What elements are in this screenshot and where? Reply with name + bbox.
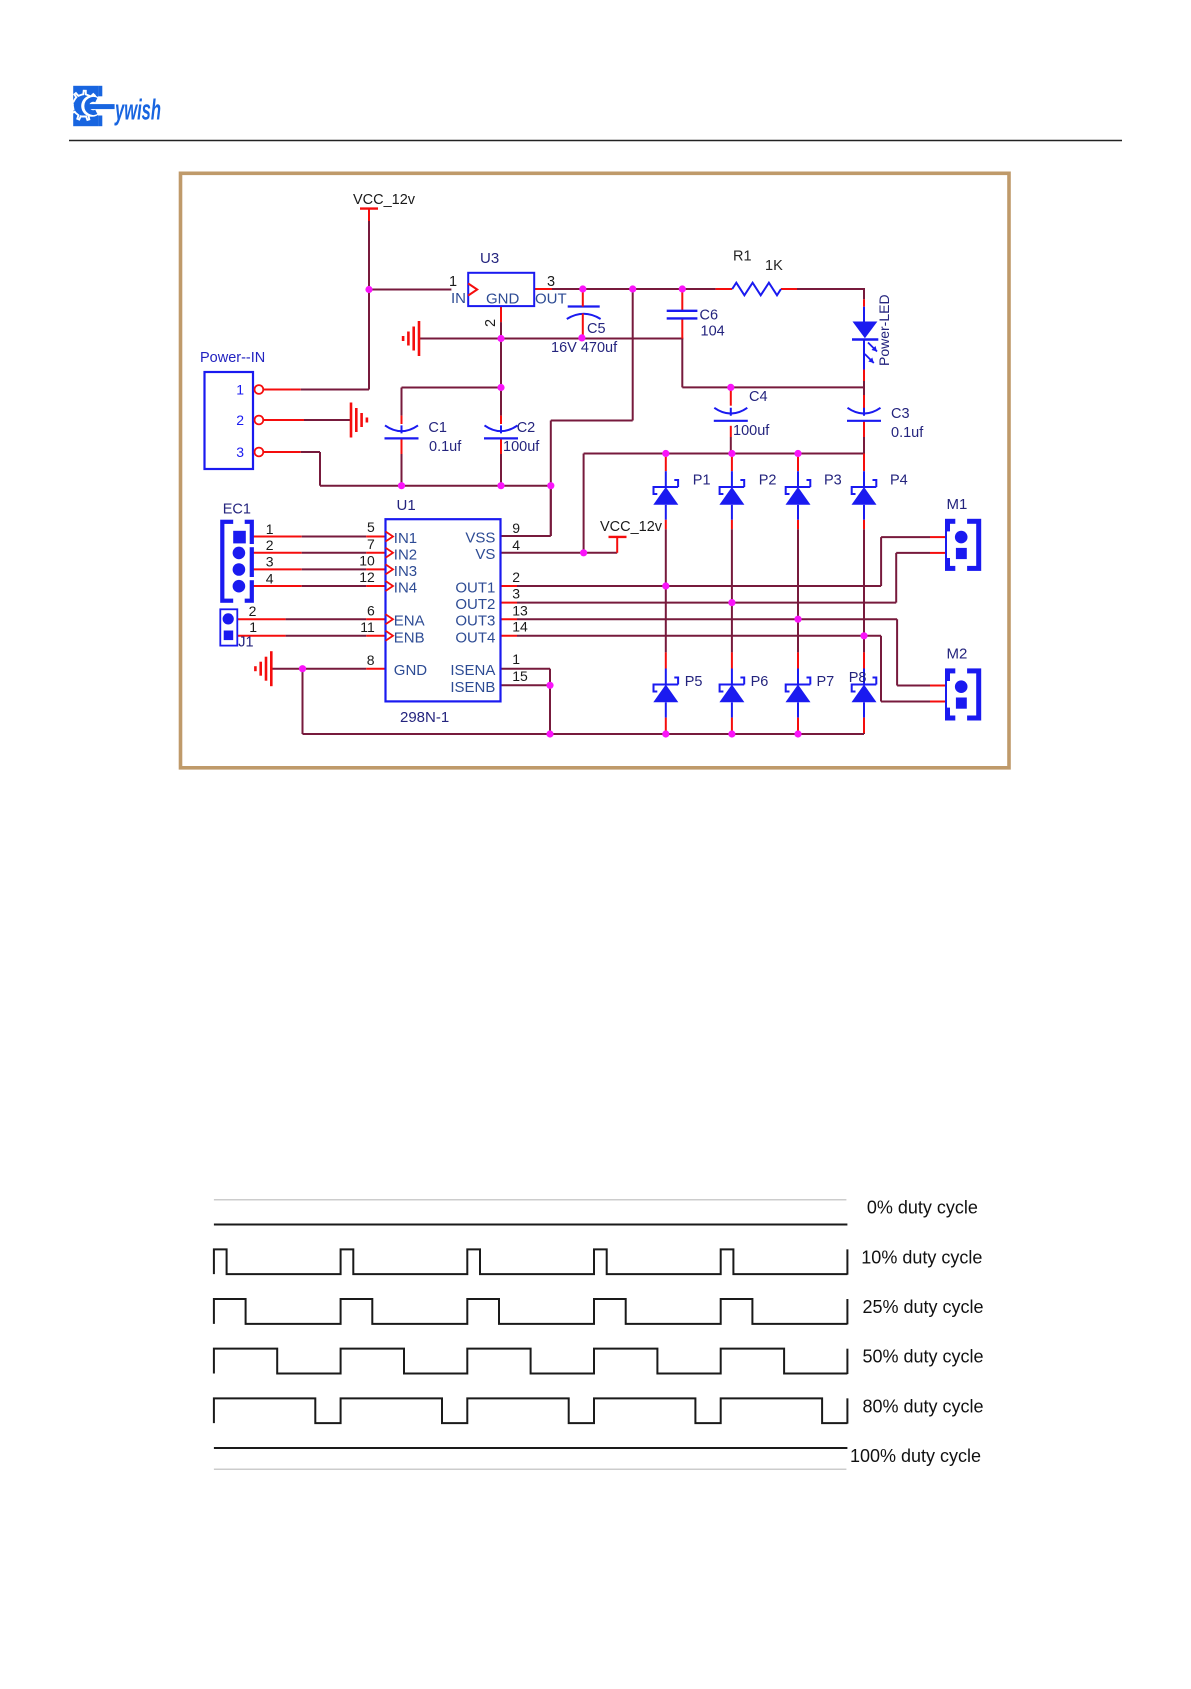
svg-text:IN: IN bbox=[451, 290, 466, 307]
svg-text:Power-LED: Power-LED bbox=[876, 294, 892, 366]
svg-text:10% duty cycle: 10% duty cycle bbox=[861, 1247, 982, 1267]
svg-text:C2: C2 bbox=[517, 420, 536, 436]
svg-text:VCC_12v: VCC_12v bbox=[600, 519, 663, 535]
svg-text:1K: 1K bbox=[765, 258, 783, 274]
svg-text:VS: VS bbox=[475, 546, 495, 563]
svg-text:4: 4 bbox=[266, 571, 274, 587]
svg-text:ISENB: ISENB bbox=[450, 679, 495, 696]
svg-text:GND: GND bbox=[486, 291, 520, 308]
svg-text:15: 15 bbox=[512, 668, 528, 684]
svg-text:OUT3: OUT3 bbox=[455, 613, 495, 630]
svg-text:ISENA: ISENA bbox=[450, 662, 495, 679]
svg-text:0.1uf: 0.1uf bbox=[891, 425, 924, 441]
svg-text:U3: U3 bbox=[480, 250, 499, 267]
svg-text:9: 9 bbox=[512, 520, 520, 536]
svg-text:IN3: IN3 bbox=[394, 563, 417, 580]
svg-text:12: 12 bbox=[359, 569, 375, 585]
svg-text:50% duty cycle: 50% duty cycle bbox=[863, 1347, 984, 1367]
svg-text:GND: GND bbox=[394, 662, 428, 679]
svg-text:3: 3 bbox=[547, 274, 555, 290]
svg-text:M2: M2 bbox=[947, 646, 968, 663]
svg-text:6: 6 bbox=[367, 602, 375, 618]
svg-text:P6: P6 bbox=[751, 674, 769, 690]
svg-text:7: 7 bbox=[367, 536, 375, 552]
svg-text:Power--IN: Power--IN bbox=[200, 350, 265, 366]
svg-text:P7: P7 bbox=[817, 674, 835, 690]
svg-text:M1: M1 bbox=[947, 496, 968, 513]
svg-text:C3: C3 bbox=[891, 406, 910, 422]
svg-text:10: 10 bbox=[359, 553, 375, 569]
svg-text:4: 4 bbox=[512, 537, 520, 553]
svg-text:EC1: EC1 bbox=[223, 502, 251, 518]
svg-text:P4: P4 bbox=[890, 472, 908, 488]
svg-text:1: 1 bbox=[512, 651, 520, 667]
svg-text:1: 1 bbox=[449, 274, 457, 290]
svg-text:2: 2 bbox=[266, 537, 274, 553]
svg-text:1: 1 bbox=[249, 619, 257, 635]
svg-text:25% duty cycle: 25% duty cycle bbox=[863, 1297, 984, 1317]
svg-text:P1: P1 bbox=[693, 472, 711, 488]
svg-text:IN2: IN2 bbox=[394, 546, 417, 563]
svg-text:100uf: 100uf bbox=[733, 423, 770, 439]
svg-text:R1: R1 bbox=[733, 249, 752, 265]
svg-text:100uf: 100uf bbox=[503, 439, 540, 455]
svg-text:100% duty cycle: 100% duty cycle bbox=[850, 1446, 981, 1466]
svg-text:2: 2 bbox=[249, 603, 257, 619]
svg-text:P8: P8 bbox=[849, 670, 867, 686]
svg-text:VSS: VSS bbox=[465, 530, 495, 547]
svg-text:3: 3 bbox=[236, 444, 244, 460]
svg-text:IN1: IN1 bbox=[394, 530, 417, 547]
svg-text:5: 5 bbox=[367, 519, 375, 535]
svg-text:104: 104 bbox=[701, 324, 725, 340]
svg-text:IN4: IN4 bbox=[394, 580, 417, 597]
svg-text:2: 2 bbox=[236, 412, 244, 428]
svg-text:P2: P2 bbox=[759, 472, 777, 488]
svg-text:1: 1 bbox=[236, 382, 244, 398]
svg-text:11: 11 bbox=[360, 619, 375, 635]
svg-text:14: 14 bbox=[512, 619, 528, 635]
svg-text:0.1uf: 0.1uf bbox=[429, 439, 462, 455]
svg-text:OUT1: OUT1 bbox=[455, 580, 495, 597]
svg-text:VCC_12v: VCC_12v bbox=[353, 192, 416, 208]
svg-text:OUT: OUT bbox=[535, 291, 567, 308]
svg-text:ywish: ywish bbox=[114, 95, 161, 127]
svg-text:13: 13 bbox=[512, 603, 528, 619]
svg-text:2: 2 bbox=[483, 319, 499, 327]
svg-text:C6: C6 bbox=[700, 308, 719, 324]
svg-text:3: 3 bbox=[512, 586, 520, 602]
svg-text:2: 2 bbox=[512, 569, 520, 585]
svg-text:C4: C4 bbox=[749, 389, 768, 405]
svg-text:ENA: ENA bbox=[394, 613, 425, 630]
svg-text:P5: P5 bbox=[685, 674, 703, 690]
svg-text:J1: J1 bbox=[238, 635, 253, 651]
svg-text:80% duty cycle: 80% duty cycle bbox=[863, 1396, 984, 1416]
svg-text:1: 1 bbox=[266, 521, 274, 537]
svg-text:C5: C5 bbox=[587, 321, 606, 337]
svg-text:OUT2: OUT2 bbox=[455, 596, 495, 613]
svg-text:OUT4: OUT4 bbox=[455, 629, 495, 646]
svg-text:3: 3 bbox=[266, 554, 274, 570]
svg-text:8: 8 bbox=[367, 652, 375, 668]
svg-text:16V 470uf: 16V 470uf bbox=[551, 340, 618, 356]
svg-text:ENB: ENB bbox=[394, 629, 425, 646]
svg-text:P3: P3 bbox=[824, 472, 842, 488]
svg-text:0% duty cycle: 0% duty cycle bbox=[867, 1198, 978, 1218]
svg-text:298N-1: 298N-1 bbox=[400, 709, 449, 726]
svg-text:C1: C1 bbox=[428, 420, 447, 436]
svg-text:U1: U1 bbox=[397, 497, 416, 514]
